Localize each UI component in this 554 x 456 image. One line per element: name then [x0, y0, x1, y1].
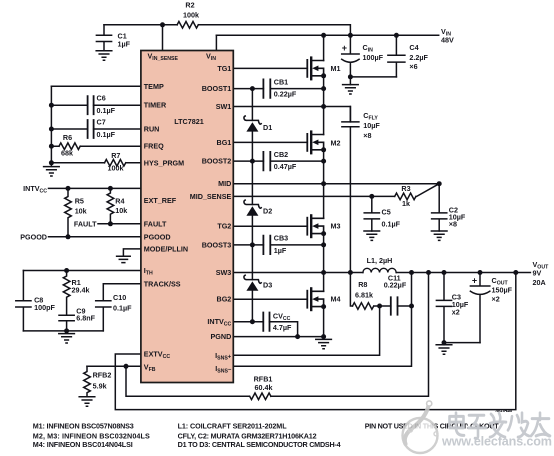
svg-text:0.22µF: 0.22µF [384, 280, 407, 289]
wire TIMER [51, 104, 140, 106]
resistor R1 [63, 271, 70, 316]
svg-text:60.4k: 60.4k [255, 383, 273, 392]
svg-text:CB2: CB2 [274, 150, 288, 159]
inductor L1 [363, 268, 396, 272]
node BOOST1/D1 [250, 86, 255, 91]
svg-text:MODE/PLLIN: MODE/PLLIN [144, 244, 188, 253]
wire R3 to MID diagonal [417, 184, 440, 197]
node VIN_SENSE junction [160, 22, 165, 27]
capacitor CFLY [342, 107, 359, 273]
svg-text:0.1µF: 0.1µF [97, 106, 116, 115]
node SW3 / M4 drain [321, 270, 326, 275]
capacitor CIN [342, 35, 359, 77]
ground below C2 [431, 231, 447, 240]
node BOOST2/D1-D2 [250, 159, 255, 164]
resistor R6 [59, 143, 80, 150]
node CB3 right [321, 242, 326, 247]
resistor R2 [177, 22, 198, 29]
svg-text:FAULT: FAULT [74, 219, 97, 228]
wire CIN bottom to ground [349, 77, 351, 85]
svg-text:1µF: 1µF [274, 246, 287, 255]
node C11 right top [409, 270, 414, 275]
capacitor C10 [96, 301, 111, 331]
node PGOOD/R5 [66, 234, 71, 239]
node BOOST3/D2-D3 [250, 242, 255, 247]
node C11 right [409, 304, 414, 309]
node FREQ [49, 144, 54, 149]
svg-text:100µF: 100µF [363, 53, 384, 62]
svg-text:TIMER: TIMER [144, 101, 167, 110]
svg-text:D1: D1 [263, 123, 272, 132]
svg-text:9V: 9V [533, 268, 542, 277]
svg-text:M4: M4 [331, 295, 341, 304]
node RFB1 top [426, 270, 431, 275]
wire VIN pin [215, 35, 217, 50]
svg-text:1k: 1k [402, 199, 410, 208]
svg-text:R2: R2 [185, 1, 194, 10]
svg-text:RUN: RUN [144, 125, 160, 134]
svg-text:C4: C4 [409, 43, 418, 52]
capacitor CB1 [263, 79, 270, 97]
svg-text:HYS_PRGM: HYS_PRGM [144, 158, 184, 167]
svg-text:M2: M2 [331, 138, 341, 147]
wire BOOST2 [233, 160, 323, 162]
node VFB [124, 364, 129, 369]
node CIN/C4 bottom [348, 74, 353, 79]
node CIN on VIN rail [348, 33, 353, 38]
wire PGOOD [49, 236, 141, 238]
capacitor C9 [59, 315, 74, 331]
svg-text:C6: C6 [97, 93, 106, 102]
svg-text:20A: 20A [533, 278, 546, 287]
svg-text:29.4k: 29.4k [72, 286, 90, 295]
ground below PGND [316, 337, 332, 349]
wire M2 source to MID [323, 150, 325, 184]
ground below C5 [364, 231, 380, 240]
svg-text:2.2µF: 2.2µF [409, 53, 428, 62]
capacitor C7 [88, 120, 94, 138]
svg-text:FREQ: FREQ [144, 142, 164, 151]
svg-text:R3: R3 [401, 184, 410, 193]
svg-text:4.7µF: 4.7µF [273, 323, 292, 332]
svg-text:R8: R8 [358, 280, 367, 289]
capacitor C3 [436, 273, 451, 343]
svg-text:MID: MID [218, 179, 231, 188]
capacitor CB2 [263, 152, 270, 170]
node TIMER [49, 103, 54, 108]
resistor RFB1 [250, 393, 271, 400]
watermark chinese characters dianzifashaoyou [450, 413, 551, 439]
capacitor C11 [391, 297, 398, 314]
diode D1 [251, 89, 253, 121]
svg-text:C5: C5 [382, 208, 391, 217]
wire compensation bottom rail [23, 330, 103, 332]
svg-text:0.22µF: 0.22µF [274, 89, 297, 98]
svg-text:0.1µF: 0.1µF [382, 219, 401, 228]
wire PGND [233, 336, 323, 338]
svg-text:0.47µF: 0.47µF [274, 162, 297, 171]
node MID / M2-M3 [321, 181, 326, 186]
svg-text:D3: D3 [263, 281, 272, 290]
ground below left rail [44, 163, 60, 176]
svg-text:5.9k: 5.9k [93, 381, 107, 390]
svg-text:M4: INFINEON BSC014N04LSI: M4: INFINEON BSC014N04LSI [33, 440, 133, 449]
wire VFB [87, 365, 141, 367]
svg-text:TG1: TG1 [217, 64, 231, 73]
node MID_SENSE / C5 [369, 194, 374, 199]
wire ITH [23, 270, 140, 272]
svg-text:PGOOD: PGOOD [144, 232, 171, 241]
wire COUT bottom to C3 bottom [444, 342, 480, 344]
diode D3 [251, 245, 253, 280]
wire M2 drain to SW1 [323, 107, 325, 135]
resistor R3 [395, 193, 416, 200]
svg-text:6.8nF: 6.8nF [76, 313, 95, 322]
svg-text:L1, 2µH: L1, 2µH [367, 256, 393, 265]
capacitor C4 [388, 35, 405, 77]
wire EXTVCC to VOUT [115, 273, 516, 410]
node HYS_PRGM [49, 160, 54, 165]
wire VIN rail 48V [216, 34, 438, 36]
svg-text:6.81k: 6.81k [355, 291, 373, 300]
svg-text:TG2: TG2 [217, 222, 231, 231]
wire FAULT [98, 223, 141, 225]
svg-text:100k: 100k [183, 11, 199, 20]
svg-text:0.1µF: 0.1µF [97, 130, 116, 139]
svg-text:PGOOD: PGOOD [20, 232, 47, 241]
node CB2 right [321, 159, 326, 164]
wire C4 bottom to CIN bottom [350, 76, 396, 78]
wire RFB1 to VFB [126, 366, 249, 396]
node ITH/R1 [64, 268, 69, 273]
svg-text:EXT_REF: EXT_REF [144, 196, 177, 205]
wire VOUT to RFB1 [271, 273, 429, 397]
svg-text:150µF: 150µF [492, 285, 513, 294]
wire INTVCC [233, 322, 297, 337]
capacitor C2 [432, 184, 447, 231]
svg-text:48V: 48V [441, 35, 454, 44]
capacitor C1 [96, 25, 111, 51]
resistor RFB2 [84, 366, 91, 397]
svg-text:×2: ×2 [492, 295, 500, 304]
svg-text:R5: R5 [75, 197, 84, 206]
ground below C3 [436, 345, 452, 354]
svg-text:M3: M3 [331, 222, 341, 231]
svg-text:L1: COILCRAFT SER2011-202ML: L1: COILCRAFT SER2011-202ML [178, 422, 288, 431]
wire M1 source to SW1 [323, 76, 325, 107]
wire HYS_PRGM [51, 162, 140, 164]
svg-text:www.elecfans.com: www.elecfans.com [441, 435, 552, 449]
svg-text:M1: INFINEON BSC057N08NS3: M1: INFINEON BSC057N08NS3 [33, 422, 134, 431]
svg-text:×6: ×6 [409, 62, 417, 71]
svg-text:10k: 10k [75, 206, 87, 215]
node RUN [49, 127, 54, 132]
node C3/COUT bottom [442, 340, 447, 345]
wire MODE/PLLIN [123, 249, 140, 256]
svg-text:M1: M1 [331, 64, 341, 73]
wire ISNS- [233, 306, 411, 366]
svg-text:CB3: CB3 [274, 234, 288, 243]
svg-text:0.1µF: 0.1µF [113, 303, 132, 312]
svg-text:SW1: SW1 [216, 102, 232, 111]
wire M3 drain to MID [323, 184, 325, 219]
wire BOOST1 [233, 88, 323, 90]
wire BOOST3 [233, 244, 323, 246]
wire left rail TEMP-HYS [50, 86, 52, 163]
node R5 top [66, 186, 71, 191]
wire RUN [51, 128, 140, 130]
svg-text:CB1: CB1 [274, 77, 288, 86]
svg-text:FAULT: FAULT [144, 219, 167, 228]
capacitor C5 [364, 196, 379, 231]
svg-text:BG1: BG1 [217, 138, 232, 147]
ground below MODE/PLLIN [117, 256, 131, 262]
ground below RFB2 [79, 397, 95, 406]
svg-text:10k: 10k [115, 206, 127, 215]
capacitor CB3 [263, 236, 270, 254]
resistor R4 [107, 188, 114, 223]
svg-text:7821 TA02a: 7821 TA02a [495, 408, 513, 413]
node SW3 / CFLY-R8 [348, 270, 353, 275]
wire ISNS+ [233, 306, 379, 355]
node M1 drain on VIN rail [321, 33, 326, 38]
svg-text:BOOST3: BOOST3 [202, 240, 232, 249]
capacitor CVCC [263, 313, 269, 331]
svg-text:R6: R6 [63, 133, 72, 142]
svg-text:R7: R7 [111, 151, 120, 160]
capacitor COUT [470, 273, 489, 343]
svg-text:SW3: SW3 [216, 268, 232, 277]
svg-text:R4: R4 [115, 197, 124, 206]
wire MID [233, 183, 439, 185]
node R8/C11 mid (ISNS+) [377, 304, 382, 309]
transistor M2 [233, 141, 307, 143]
svg-text:C10: C10 [113, 293, 126, 302]
node C4 on VIN rail [394, 33, 399, 38]
node PGND/M4 [321, 334, 326, 339]
svg-text:MID_SENSE: MID_SENSE [190, 192, 232, 201]
svg-text:+: + [342, 43, 347, 53]
svg-text:PGND: PGND [211, 332, 232, 341]
wire top rail VIN_SENSE [104, 25, 350, 36]
svg-text:D2: D2 [263, 207, 272, 216]
node FAULT/R4 [108, 221, 113, 226]
resistor R7 [105, 160, 126, 167]
node SW1 [321, 104, 326, 109]
svg-text:×8: ×8 [363, 131, 371, 140]
resistor R8 [353, 303, 374, 310]
svg-text:100k: 100k [108, 164, 124, 173]
watermark elecfans badge [403, 401, 439, 453]
wire INTVCC rail [49, 187, 141, 189]
svg-text:D1 TO D3: CENTRAL SEMICONDUCTO: D1 TO D3: CENTRAL SEMICONDUCTOR CMDSH-4 [178, 440, 341, 449]
node R4 top [108, 186, 113, 191]
diode D2 [251, 161, 253, 204]
wire VOUT rail [396, 272, 530, 274]
node CB1 right [321, 86, 326, 91]
svg-text:CFLY, C2: MURATA GRM32ER71H106: CFLY, C2: MURATA GRM32ER71H106KA12 [178, 431, 317, 440]
capacitor C8 [16, 271, 31, 331]
node EXTVCC feed top [513, 270, 518, 275]
svg-text:100pF: 100pF [34, 303, 55, 312]
wire M4 source to PGND [323, 307, 325, 337]
transistor M4 [233, 298, 307, 300]
wire M1 drain [323, 35, 325, 60]
svg-text:BOOST2: BOOST2 [202, 157, 232, 166]
node COUT top [478, 270, 483, 275]
wire R8 branch left [350, 273, 352, 307]
svg-text:RFB2: RFB2 [93, 371, 112, 380]
transistor M1 [233, 67, 307, 69]
ground below C9 [59, 331, 75, 343]
wire TRACK/SS [103, 284, 141, 301]
wire C11 right to rail [398, 273, 412, 307]
node C9 bottom [64, 328, 69, 333]
wire M3 source to SW3 and M4 drain [323, 234, 325, 292]
ground below CIN [343, 85, 359, 94]
wire TEMP [51, 85, 140, 87]
svg-text:1µF: 1µF [118, 40, 131, 49]
wire R8 to C11 [374, 305, 391, 307]
svg-text:M2, M3: INFINEON BSC032N04LS: M2, M3: INFINEON BSC032N04LS [33, 431, 150, 440]
svg-text:×8: ×8 [449, 220, 457, 229]
resistor R5 [65, 188, 72, 236]
ground below C1 [96, 51, 112, 60]
node INTVCC/D3 [250, 319, 255, 324]
svg-text:+: + [472, 276, 477, 286]
wire FREQ [51, 145, 140, 147]
node PGND/CVCC [295, 334, 300, 339]
capacitor C6 [88, 96, 94, 114]
node C3 top [442, 270, 447, 275]
wire SW3 [233, 272, 363, 274]
svg-text:BG2: BG2 [217, 295, 232, 304]
wire VIN_SENSE pin [162, 25, 164, 51]
wire SW1 [233, 107, 350, 122]
svg-text:68k: 68k [61, 149, 73, 158]
transistor M3 [233, 225, 307, 227]
svg-text:TEMP: TEMP [144, 82, 164, 91]
svg-text:BOOST1: BOOST1 [202, 84, 232, 93]
svg-text:TRACK/SS: TRACK/SS [144, 279, 181, 288]
IC U1 LTC7821 body [141, 51, 233, 383]
svg-text:LTC7821: LTC7821 [174, 117, 203, 126]
node MID / C2-R3 [437, 181, 442, 186]
svg-text:C7: C7 [97, 118, 106, 127]
svg-text:x2: x2 [452, 307, 460, 316]
svg-text:10µF: 10µF [363, 121, 380, 130]
wire MID_SENSE [233, 195, 394, 197]
